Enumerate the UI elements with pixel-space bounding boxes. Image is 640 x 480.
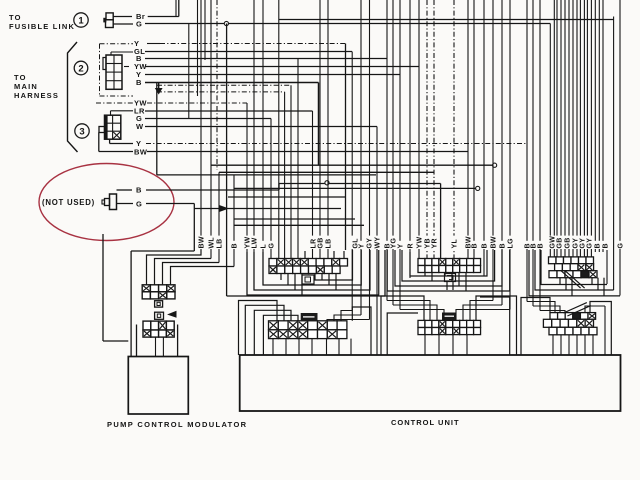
- svg-text:BW: BW: [199, 236, 206, 248]
- svg-text:WL: WL: [209, 237, 216, 249]
- svg-text:B: B: [538, 243, 545, 248]
- svg-text:1: 1: [78, 15, 84, 26]
- svg-text:TO: TO: [14, 73, 27, 82]
- svg-text:B: B: [136, 186, 142, 195]
- svg-text:GB: GB: [318, 237, 325, 248]
- svg-text:LG: LG: [508, 238, 515, 249]
- svg-text:G: G: [136, 200, 142, 209]
- svg-text:MAIN: MAIN: [14, 82, 38, 91]
- svg-text:GY: GY: [367, 238, 374, 249]
- svg-text:FUSIBLE LINK: FUSIBLE LINK: [9, 22, 75, 31]
- svg-text:Y: Y: [359, 244, 366, 249]
- svg-text:L: L: [261, 244, 268, 249]
- svg-text:B: B: [232, 243, 239, 248]
- svg-text:3: 3: [79, 126, 84, 137]
- svg-text:GY: GY: [587, 238, 594, 249]
- svg-text:BW: BW: [134, 148, 148, 157]
- svg-text:2: 2: [78, 63, 83, 74]
- svg-text:B: B: [482, 243, 489, 248]
- svg-text:WY: WY: [375, 237, 382, 249]
- svg-text:(NOT USED): (NOT USED): [42, 198, 95, 207]
- svg-text:BW: BW: [491, 236, 498, 248]
- svg-text:B: B: [136, 78, 142, 87]
- svg-text:G: G: [269, 243, 276, 249]
- svg-text:W: W: [136, 122, 144, 131]
- svg-text:PUMP CONTROL MODULATOR: PUMP CONTROL MODULATOR: [107, 420, 247, 429]
- svg-text:Y: Y: [398, 244, 405, 249]
- svg-text:YL: YL: [452, 239, 459, 249]
- svg-text:LB: LB: [326, 239, 333, 249]
- svg-text:YW: YW: [417, 237, 424, 249]
- svg-text:HARNESS: HARNESS: [14, 91, 59, 100]
- svg-text:LW: LW: [252, 237, 259, 248]
- svg-text:GB: GB: [557, 237, 564, 248]
- svg-text:LB: LB: [217, 239, 224, 249]
- svg-text:B: B: [595, 243, 602, 248]
- svg-text:R: R: [408, 243, 415, 248]
- svg-text:G: G: [136, 20, 142, 29]
- svg-text:G: G: [618, 243, 625, 249]
- svg-text:GB: GB: [565, 237, 572, 248]
- svg-text:YR: YR: [432, 238, 439, 248]
- svg-text:B: B: [603, 243, 610, 248]
- svg-text:CONTROL UNIT: CONTROL UNIT: [391, 418, 460, 427]
- svg-text:B: B: [500, 243, 507, 248]
- svg-text:B: B: [472, 243, 479, 248]
- svg-text:TO: TO: [9, 13, 22, 22]
